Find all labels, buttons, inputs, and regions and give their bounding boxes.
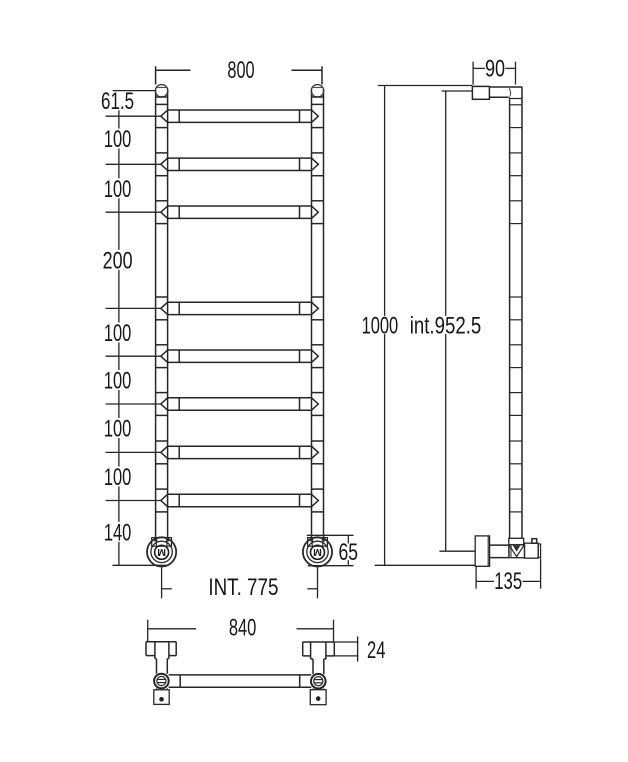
rung 3 left chevron end xyxy=(161,206,168,218)
dimension int.952.5 bottom extension xyxy=(439,550,475,552)
svg-text:int.952.5: int.952.5 xyxy=(410,312,482,339)
right post stub top view xyxy=(312,659,314,674)
rung 4 tube xyxy=(168,301,312,303)
bottom view tube joint collars xyxy=(179,675,181,687)
rung 7 left chevron end xyxy=(161,446,168,458)
INT.775 dimension stubs xyxy=(162,588,172,590)
right valve hex nut xyxy=(308,538,328,547)
side view wall arm xyxy=(490,544,509,546)
rung 7 right chevron end xyxy=(312,446,319,458)
svg-text:840: 840 xyxy=(229,615,257,642)
right valve inner circle xyxy=(307,541,328,562)
left chain tick top of rail xyxy=(113,90,156,92)
left post stub top view xyxy=(156,659,158,674)
left dimension chain vertical line xyxy=(118,89,120,91)
bottom view horizontal tube xyxy=(169,674,312,676)
rung 8 left chevron end xyxy=(161,494,168,506)
dimension 65 extension lines xyxy=(307,534,354,536)
rung 2 right chevron end xyxy=(312,158,319,170)
rung 4 right chevron end xyxy=(312,302,319,314)
svg-text:100: 100 xyxy=(104,176,131,203)
left valve outer circle xyxy=(147,537,176,566)
rung 1 post collar lines xyxy=(156,127,168,129)
svg-text:INT. 775: INT. 775 xyxy=(208,574,278,601)
svg-text:24: 24 xyxy=(367,637,385,664)
dimension 24 extension lines xyxy=(334,641,358,643)
left valve M logo circle xyxy=(155,545,169,559)
left foot plate xyxy=(156,688,158,690)
rung 6 right chevron end xyxy=(312,398,319,410)
left chain rung ticks xyxy=(106,115,161,117)
right post cap joint lines xyxy=(312,96,324,98)
left post top dome cap xyxy=(155,85,167,97)
left chain bottom line at valve bottom xyxy=(113,564,169,566)
rung 5 post collar lines xyxy=(156,344,168,346)
rung 2 tube xyxy=(168,157,312,159)
svg-text:800: 800 xyxy=(227,57,254,84)
side view valve stem xyxy=(532,539,537,544)
rung 7 tube xyxy=(168,445,312,447)
side view elbow curve xyxy=(508,97,509,99)
right bracket screw circle xyxy=(311,674,326,689)
rung 4 left chevron end xyxy=(161,302,168,314)
side view horizontal tube to riser xyxy=(489,86,522,88)
rung 5 tube xyxy=(168,349,312,351)
rung 8 post collar lines xyxy=(156,488,168,490)
rung 2 post collar lines xyxy=(156,152,168,154)
rung 1 joint collars on tube xyxy=(178,110,180,122)
rung 4 post collar lines xyxy=(156,296,168,298)
rung 1 tube xyxy=(168,109,312,111)
rung 7 post collar lines xyxy=(156,440,168,442)
left post cap joint lines xyxy=(156,96,168,98)
dimension 840 line xyxy=(148,628,196,630)
dimension int.952.5 vertical line xyxy=(445,91,447,316)
svg-text:135: 135 xyxy=(494,568,522,595)
rung 2 joint collars on tube xyxy=(178,158,180,170)
rung 5 left chevron end xyxy=(161,350,168,362)
rung 1 right chevron end xyxy=(312,110,319,122)
dimension 65 line xyxy=(347,535,349,543)
rung 7 joint collars on tube xyxy=(178,446,180,458)
svg-text:M: M xyxy=(313,546,322,558)
dimension 90 line xyxy=(473,67,485,69)
rung 8 tube xyxy=(168,493,312,495)
rung 3 post collar lines xyxy=(156,200,168,202)
rung 8 joint collars on tube xyxy=(178,494,180,506)
rung 6 left chevron end xyxy=(161,398,168,410)
svg-text:100: 100 xyxy=(104,320,131,347)
rung 5 joint collars on tube xyxy=(178,350,180,362)
dimension 135 line xyxy=(476,580,494,582)
dimension 800 extension lines xyxy=(155,66,157,84)
rung 1 left chevron end xyxy=(161,110,168,122)
svg-text:M: M xyxy=(157,546,166,558)
left end cap top view xyxy=(146,641,176,643)
rung 3 joint collars on tube xyxy=(178,206,180,218)
left valve hex nut xyxy=(152,538,172,547)
svg-text:65: 65 xyxy=(338,539,358,566)
rung 6 tube xyxy=(168,397,312,399)
side view valve end cap xyxy=(538,544,540,557)
svg-text:61.5: 61.5 xyxy=(101,88,134,115)
svg-text:200: 200 xyxy=(103,248,133,275)
side view valve body xyxy=(509,545,525,558)
right end cap top view xyxy=(303,641,335,643)
dimension 840 extension lines xyxy=(147,620,149,642)
left valve inner circle xyxy=(151,541,172,562)
side view top rung block xyxy=(472,86,489,99)
right post vertical tube xyxy=(311,90,313,538)
rung 6 post collar lines xyxy=(156,392,168,394)
rung 3 tube xyxy=(168,205,312,207)
right post top dome cap xyxy=(311,85,323,97)
dimension 1000 top extension xyxy=(378,85,473,87)
svg-text:100: 100 xyxy=(104,464,131,491)
rung 4 joint collars on tube xyxy=(178,302,180,314)
left bracket screw circle xyxy=(154,674,169,689)
side view riser bend collar xyxy=(510,98,522,100)
rung 5 right chevron end xyxy=(312,350,319,362)
right valve outer circle xyxy=(303,537,332,566)
rung 3 right chevron end xyxy=(312,206,319,218)
dimension 1000 vertical line xyxy=(384,86,386,316)
dimension int.952.5 top extension xyxy=(442,90,473,92)
side view riser collar lines xyxy=(510,104,522,106)
right foot plate xyxy=(312,689,314,690)
svg-text:90: 90 xyxy=(485,55,505,82)
svg-text:100: 100 xyxy=(104,416,131,443)
dimension 800 line xyxy=(156,69,191,71)
dimension 90 extension lines xyxy=(472,62,474,85)
left post vertical tube xyxy=(155,90,157,538)
dimension 1000 bottom extension xyxy=(375,564,476,566)
rung 8 right chevron end xyxy=(312,494,319,506)
rung 2 left chevron end xyxy=(161,158,168,170)
side view valve collar xyxy=(509,538,524,545)
side view riser tube xyxy=(509,100,511,539)
dimension 24 line xyxy=(357,636,359,661)
svg-text:1000: 1000 xyxy=(362,313,399,340)
INT.775 extension lines xyxy=(161,567,163,598)
svg-text:100: 100 xyxy=(104,126,131,153)
side view valve right block xyxy=(525,543,539,558)
side view wall plate xyxy=(475,536,489,566)
svg-text:140: 140 xyxy=(104,520,131,547)
rung 6 joint collars on tube xyxy=(178,398,180,410)
dimension 135 extension lines xyxy=(475,566,477,588)
right valve M logo circle xyxy=(311,545,325,559)
svg-text:100: 100 xyxy=(104,368,131,395)
